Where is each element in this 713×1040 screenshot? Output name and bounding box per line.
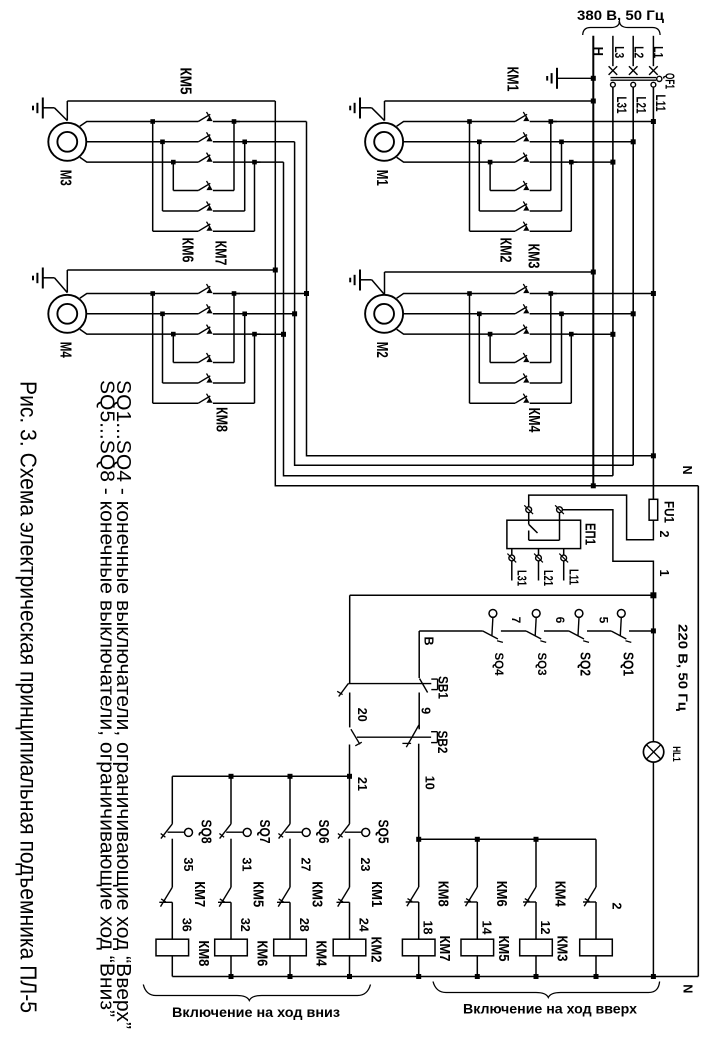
wire М3 row1 [173,190,198,192]
wire up 596.0 bottom [595,956,597,977]
contact М1 lower row3 [515,224,527,231]
wire M1 phase2 to L21 [562,141,634,143]
wire node 21 [172,775,349,777]
contact М3 upper phase3 [198,155,210,162]
svg-text:ЕП1: ЕП1 [582,523,598,545]
wire М4 row2 [163,382,199,384]
wire 27 [289,839,291,888]
contact М2 lower row1 [515,355,527,362]
brace supply [583,22,660,36]
contact КМ7 [161,887,173,906]
wire L31 rail [612,87,614,476]
wire М1 phase2 [403,141,515,143]
wire L1 top [652,36,654,66]
wire КМ6 bottom [230,956,232,977]
contact КМ5 [219,887,231,906]
svg-text:SQ2: SQ2 [577,652,593,676]
svg-text:КМ7: КМ7 [191,881,207,907]
wire control N rail [172,976,698,978]
svg-text:М4: М4 [56,342,73,358]
wire up branch 536.0 [535,839,537,887]
coil up КМ1 [580,939,613,956]
wire М3 row2 right [213,210,245,212]
svg-text:18: 18 [421,921,435,935]
node 1 junction [650,592,656,598]
wire М2 left drop2 [478,314,480,383]
wire М2 phase2 [403,313,515,315]
wire М2 row3 right [530,402,572,404]
node М3 left dot2 [160,140,165,145]
wire 9 [418,693,420,730]
node М3 right dot1 [232,119,237,124]
node lamp rail [651,974,656,979]
contact М4 upper phase2 [198,307,210,314]
svg-text:L31: L31 [614,97,629,114]
svg-text:L31: L31 [515,570,529,586]
node М2 right dot3 [569,332,574,337]
node rail 596 [594,974,599,979]
wire 35 [171,839,173,888]
svg-text:220 В, 50 Гц: 220 В, 50 Гц [676,624,690,711]
svg-text:КМ6: КМ6 [179,238,196,263]
svg-text:КМ3: КМ3 [525,244,542,269]
node М4 left dot2 [160,312,165,317]
svg-text:КМ6: КМ6 [254,940,270,966]
coil up КМ3 [520,939,553,956]
node М1 left dot3 [488,160,493,165]
node М2 right dot1 [549,291,554,296]
svg-text:L11: L11 [653,95,668,112]
limit switch SQ5 [338,824,349,839]
coil КМ6 [215,939,248,956]
contact М2 upper phase1 [515,286,527,293]
wire М3 right drop2 [244,142,246,211]
contact М4 upper phase3 [198,327,210,334]
wire M3 frame [66,101,68,121]
svg-text:L11: L11 [566,569,580,585]
wire М1 right drop2 [561,142,563,211]
wire М2 row3 [470,402,516,404]
svg-text:31: 31 [240,858,254,872]
contact М2 upper phase3 [515,327,527,334]
contact КМ1 [338,887,350,906]
wire М1 phase2 right [530,141,568,143]
node rail 349.5 [347,974,352,979]
ground M1 [359,98,361,119]
wire node1 [562,510,653,596]
wire М1 left drop3 [489,162,491,190]
wire EP1 inner [528,513,530,525]
wire up 477.3 mid [476,902,478,939]
wire 220V drop [652,595,654,631]
wire М1 row3 right [530,230,572,232]
node rail 477.3 [475,974,480,979]
svg-text:SQ7: SQ7 [256,820,272,844]
node M2 frame N [591,270,596,275]
contact М4 lower row3 [198,396,210,403]
wire М3 left drop1 [152,122,154,232]
node 10 b1 [416,837,421,842]
svg-text:9: 9 [419,707,433,714]
svg-text:Включение на ход вниз: Включение на ход вниз [172,1005,340,1020]
svg-text:12: 12 [538,921,552,935]
fuse FU1 [652,499,654,520]
limit switch SQ7 [220,824,231,839]
wire М3 phase1 [80,122,199,127]
node rail 290 [288,974,293,979]
svg-text:36: 36 [179,918,193,932]
coil up КМ5 [461,939,494,956]
svg-text:КМ4: КМ4 [525,408,542,433]
svg-text:КМ5: КМ5 [495,936,511,962]
svg-text:7: 7 [509,617,523,624]
svg-text:КМ1: КМ1 [368,881,384,907]
limit switch SQ3 [532,610,540,618]
brace down group [143,985,370,1001]
wire M2 phase2 to L21 [562,313,634,315]
wire М2 phase1 right [530,293,557,295]
contact SB1 aux [339,684,349,697]
wire branch SQ7 upper [230,776,232,824]
contact М4 upper phase1 [198,286,210,293]
node bus L11 [651,453,656,458]
contact М1 lower row2 [515,204,527,211]
wire М2 row2 right [530,382,562,384]
svg-text:HL1: HL1 [670,746,682,762]
wire М3 phase2 [86,141,198,143]
node rail 231 [229,974,234,979]
coil КМ8 [156,939,189,956]
wire M1 frame [384,101,386,121]
svg-text:SB1: SB1 [436,676,452,699]
node rail 536 [534,974,539,979]
svg-text:КМ3: КМ3 [554,936,570,962]
svg-text:QF1: QF1 [663,73,678,89]
wire lamp [652,631,654,742]
wire М4 phase2 [86,313,198,315]
button SB2 [406,725,419,747]
contact М4 lower row1 [198,355,210,362]
wire М4 phase1 [80,294,199,299]
node М2 left dot1 [467,291,472,296]
node М1 left dot1 [467,119,472,124]
contact М1 upper phase2 [515,135,527,142]
wire M1 phase3 to L31 [571,161,613,163]
wire 21 drop [349,745,351,777]
wire М3 phase3 right [213,161,261,163]
wire М3 row2 [163,210,199,212]
wire М1 phase1 right [530,121,557,123]
node М4 right dot3 [252,332,257,337]
motor М4 [48,295,86,333]
wire М1 row1 [490,190,515,192]
contact М2 upper phase2 [515,307,527,314]
wire М4 left drop2 [162,314,164,383]
wire 1 horizontal [350,594,654,596]
svg-text:21: 21 [355,777,369,791]
svg-text:КМ4: КМ4 [552,881,568,907]
svg-text:КМ7: КМ7 [212,241,229,266]
wire М4 phase3 right [213,333,261,335]
wire М4 phase1 right [213,293,240,295]
wire M3 phase1 to bus [234,121,307,123]
wire up 536.0 bottom [535,956,537,977]
coil up КМ7 [402,939,435,956]
node М1 right dot1 [549,119,554,124]
wire М2 phase1 [397,294,515,299]
svg-text:КМ5: КМ5 [250,881,266,907]
contact up КМ2 [584,887,596,906]
svg-text:N: N [680,465,694,474]
wire L2 top [632,36,634,66]
button SB1 [420,679,428,693]
svg-text:380 В, 50 Гц: 380 В, 50 Гц [577,8,665,23]
wire М2 row1 [490,362,515,364]
wire M2 phase3 to L31 [571,333,613,335]
svg-text:КМ6: КМ6 [493,881,509,907]
limit switch SQ2 [575,610,583,618]
svg-text:КМ8: КМ8 [195,940,211,966]
wire М2 phase3 right [530,333,578,335]
wire КМ4 bottom [289,956,291,977]
wire М4 row1 right [213,362,234,364]
svg-text:14: 14 [479,921,493,935]
motor М2 [365,295,403,333]
plug EP1 top right [557,507,563,513]
svg-text:20: 20 [355,708,369,722]
svg-text:SQ5: SQ5 [375,820,391,844]
wire М4 right drop3 [254,334,256,403]
node М4 left dot3 [171,332,176,337]
limit switch SQ1 [617,610,625,618]
wire branch SQ6 upper [289,776,291,824]
wire М2 row1 right [530,362,551,364]
contact up КМ6 [466,887,478,906]
wire М2 left drop3 [489,334,491,362]
svg-text:1: 1 [657,570,671,577]
svg-text:SQ5...SQ8 - конечные выключате: SQ5...SQ8 - конечные выключатели, ограни… [96,380,118,1017]
node rail 418.7 [416,974,421,979]
node 21 b3 [288,774,293,779]
node М4 right dot1 [232,291,237,296]
node М2 left dot3 [488,332,493,337]
wire М3 right drop3 [254,162,256,231]
ground top [556,68,558,89]
wire М1 right drop3 [570,162,572,231]
wire B down [418,631,420,678]
wire up branch 477.3 [476,839,478,887]
wire М2 right drop2 [561,314,563,383]
svg-text:КМ2: КМ2 [497,238,514,263]
wire М3 left drop3 [172,162,174,190]
plug EP1 bottom L11 [563,549,565,556]
wire up 418.7 mid [418,902,420,939]
motor М3 [48,123,86,161]
svg-text:Включение на ход вверх: Включение на ход вверх [463,1002,638,1017]
svg-text:L21: L21 [541,570,555,586]
wire up 477.3 bottom [476,956,478,977]
svg-text:FU1: FU1 [662,501,678,523]
svg-text:В: В [422,636,436,645]
svg-text:КМ5: КМ5 [177,68,194,95]
wire М3 phase3 [80,157,199,162]
wire chain right [629,630,653,632]
wire lamp bottom [652,762,654,976]
node N rail join [591,483,596,488]
plug EP1 bottom L21 [538,549,540,556]
svg-text:КМ4: КМ4 [313,940,329,966]
wire М2 row2 [479,382,515,384]
wire 28 [289,902,291,939]
node 10 b3 [534,837,539,842]
wire М4 right drop1 [233,294,235,363]
node M4 phase2 bus [245,313,295,315]
node M4 frame [273,268,278,273]
wire М1 row2 [479,210,515,212]
wire 7 [501,630,526,632]
svg-text:2: 2 [609,903,623,910]
node М3 right dot2 [242,140,247,145]
svg-text:6: 6 [553,617,567,624]
wire up 596.0 mid [595,902,597,939]
svg-text:SB2: SB2 [435,731,451,754]
svg-text:5: 5 [597,617,611,624]
svg-text:SQ8: SQ8 [197,820,213,844]
node 21 b4 [347,774,352,779]
svg-text:32: 32 [238,918,252,932]
wire М3 row3 right [213,230,255,232]
contact М3 upper phase1 [198,114,210,121]
node M1 frame N [591,99,596,104]
wire branch SQ5 upper [349,776,351,824]
wire 32 [230,902,232,939]
wire М4 right drop2 [244,314,246,383]
wire bus PE left [275,101,593,486]
contact М3 lower row3 [198,224,210,231]
node М3 left dot1 [150,119,155,124]
wire M2 frame [384,272,386,295]
node М1 right dot3 [569,160,574,165]
node on N rail ground [591,76,596,81]
svg-text:24: 24 [357,918,371,932]
wire 20 [349,595,351,683]
svg-text:L3: L3 [612,46,627,58]
wire N to right [593,485,698,487]
wire bus L11 left [307,122,654,456]
svg-text:КМ7: КМ7 [436,936,452,962]
wire M4 frame [66,270,68,293]
ground M2 [359,270,361,291]
svg-text:М2: М2 [373,342,390,358]
wire bus L21 left [295,142,634,466]
wire N rail right [697,486,699,977]
terminal L21 [631,82,636,87]
svg-text:М3: М3 [56,170,73,186]
svg-text:SQ3: SQ3 [535,652,547,675]
node SQ1 junction [651,628,656,633]
contact КМ3 [278,887,290,906]
svg-text:2: 2 [657,531,671,538]
wire 5 [587,630,611,632]
svg-text:КМ8: КМ8 [434,881,450,907]
wire node 10 [419,838,596,840]
svg-text:SQ1: SQ1 [620,652,636,676]
wire 10 [418,744,420,840]
wire М3 phase2 right [213,141,251,143]
node М1 right dot2 [559,140,564,145]
contact SB2 aux [351,729,360,744]
wire М1 row1 right [530,190,551,192]
wire М4 row3 [153,402,199,404]
wire М3 row1 right [213,190,234,192]
wire М4 left drop3 [172,334,174,362]
node 10 b2 [475,837,480,842]
contact up КМ4 [524,887,536,906]
svg-text:L2: L2 [631,46,646,58]
wire М1 phase3 right [530,161,578,163]
wire М4 left drop1 [152,294,154,404]
contact М2 lower row3 [515,396,527,403]
node 21 b2 [229,774,234,779]
wire M3 phase2 to bus [245,141,295,143]
svg-text:Рис. 3. Схема электрическая пр: Рис. 3. Схема электрическая принципиальн… [16,381,42,1013]
wire М4 row3 right [213,402,255,404]
wire 24 [349,902,351,939]
wire М3 left drop2 [162,142,164,211]
device EP1 box [507,520,581,548]
wire М1 phase1 [397,122,515,127]
svg-text:23: 23 [358,858,372,872]
wire М3 row3 [153,230,199,232]
wire up 418.7 bottom [418,956,420,977]
svg-text:SQ6: SQ6 [315,820,331,844]
node М4 right dot2 [242,312,247,317]
lamp HL1 [643,742,663,762]
wire М2 right drop1 [550,294,552,363]
node M4 phase1 bus [234,293,307,295]
svg-text:35: 35 [181,858,195,872]
contact М1 lower row1 [515,183,527,190]
wire М1 left drop2 [478,142,480,211]
wire М4 phase2 right [213,313,251,315]
wire М1 right drop1 [550,122,552,191]
wire bus L31 left [284,162,613,476]
wire КМ2 bottom [349,956,351,977]
svg-text:КМ3: КМ3 [309,881,325,907]
plug EP1 top left [526,507,532,513]
limit switch SQ4 [489,610,497,618]
coil КМ2 [333,939,366,956]
wire L3 top [612,36,614,66]
wire М1 row3 [470,230,516,232]
svg-text:КМ1: КМ1 [504,67,521,92]
ground M4 [42,268,44,289]
svg-text:10: 10 [423,776,437,790]
limit switch SQ6 [279,824,290,839]
wire М2 phase2 right [530,313,568,315]
svg-text:КМ8: КМ8 [213,407,230,432]
plug EP1 bottom L31 [511,549,513,556]
wire up 536.0 mid [535,902,537,939]
limit switch SQ8 [161,824,172,839]
wire M3 phase3 to bus [255,161,284,163]
contact М3 upper phase2 [198,135,210,142]
node М2 right dot2 [559,312,564,317]
terminal L31 [611,82,616,87]
node М3 left dot3 [171,160,176,165]
wire 23 [349,839,351,888]
wire branch SQ8 upper [171,776,173,824]
